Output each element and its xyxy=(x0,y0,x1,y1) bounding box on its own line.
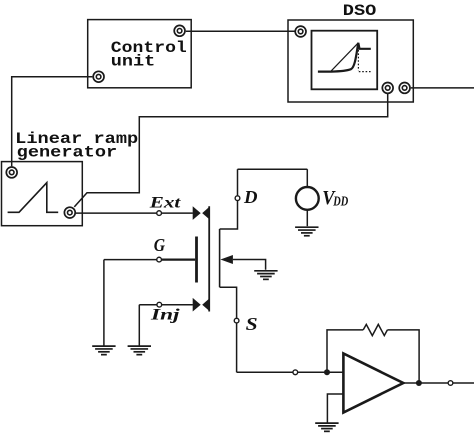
node G xyxy=(157,257,162,262)
MOSFET gate bar xyxy=(195,237,198,283)
terminal control bottom-left xyxy=(93,71,104,82)
terminal generator top-left xyxy=(6,167,17,178)
wire bulk to ground xyxy=(233,260,266,270)
svg-text:DD: DD xyxy=(333,194,349,209)
wire DSO output right xyxy=(411,87,474,89)
terminal DSO top-left xyxy=(295,26,306,37)
DSO box xyxy=(288,20,413,102)
DSO screen xyxy=(312,31,378,90)
op-amp U2 xyxy=(343,354,403,413)
terminal generator output xyxy=(64,207,75,218)
node Ext xyxy=(157,211,162,216)
node op-amp output xyxy=(448,381,453,386)
wire G to ground xyxy=(103,260,105,346)
VDD source V1 xyxy=(296,169,319,226)
wire Ext xyxy=(76,212,193,214)
ramp symbol xyxy=(8,183,59,213)
svg-text:generator: generator xyxy=(17,143,118,161)
DSO dashed vertical cursor xyxy=(357,50,359,71)
terminal DSO bottom-2 xyxy=(399,83,410,94)
wire G horizontal xyxy=(104,259,162,261)
junction dot input xyxy=(324,369,330,375)
ground G2 xyxy=(128,346,151,355)
svg-text:S: S xyxy=(246,314,258,334)
wire control-to-generator xyxy=(12,77,93,167)
wire drain top xyxy=(238,168,308,170)
linear ramp generator box xyxy=(2,162,83,226)
wire op-amp input xyxy=(237,371,344,373)
wire Inj horizontal xyxy=(139,304,193,306)
label VDD xyxy=(322,187,348,209)
junction dot output xyxy=(416,380,422,386)
node D xyxy=(235,196,240,201)
svg-text:Ext: Ext xyxy=(148,195,181,212)
wire drain to channel xyxy=(220,201,238,229)
svg-text:DSO: DSO xyxy=(343,2,377,20)
svg-text:D: D xyxy=(243,187,258,207)
node S xyxy=(234,318,239,323)
ground G3 VDD xyxy=(295,227,318,236)
MOSFET channel line xyxy=(208,206,210,311)
DSO dashed horizontal cursor xyxy=(359,71,371,73)
MOSFET drain-source bar xyxy=(219,229,221,287)
wire control-to-DSO xyxy=(186,30,295,32)
ground G1 xyxy=(92,346,115,355)
injection arrow pair Inj (bowtie) xyxy=(193,298,210,312)
node Inj xyxy=(157,302,162,307)
svg-text:unit: unit xyxy=(111,52,156,70)
feedback wire right xyxy=(387,330,419,383)
DSO ramp trace (thin) xyxy=(331,43,359,72)
terminal control top-right xyxy=(174,25,185,36)
MOSFET bulk arrow xyxy=(220,255,233,264)
wire drain vertical xyxy=(237,169,239,195)
wire source from channel xyxy=(220,287,237,318)
control unit box U1 xyxy=(88,20,192,88)
feedback wire xyxy=(327,330,363,372)
node op-amp input xyxy=(293,370,298,375)
ground G4 op-amp xyxy=(315,423,338,431)
wire source down xyxy=(236,323,238,372)
terminal DSO bottom-1 xyxy=(382,83,393,94)
gate lead thick xyxy=(161,258,195,260)
svg-text:Inj: Inj xyxy=(150,307,181,324)
svg-text:G: G xyxy=(154,235,166,255)
wire DSO-to-generator xyxy=(74,94,387,207)
resistor R1 xyxy=(363,324,387,335)
wire op-amp output xyxy=(403,382,474,384)
ground G5 bulk xyxy=(254,271,277,280)
wire Inj to ground xyxy=(138,305,140,346)
injection arrow pair Ext (bowtie) xyxy=(193,206,210,220)
op-amp ground stub xyxy=(327,394,343,423)
DSO response trace (thick) xyxy=(318,43,371,72)
